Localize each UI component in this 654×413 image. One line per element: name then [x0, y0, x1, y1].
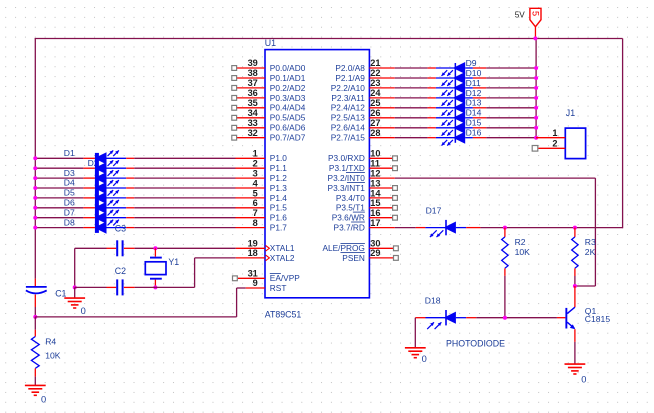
svg-text:C1815: C1815: [585, 314, 611, 324]
svg-text:14: 14: [370, 188, 381, 198]
svg-text:30: 30: [370, 239, 380, 249]
LED D12: [442, 88, 482, 106]
svg-text:P1.0: P1.0: [270, 153, 287, 163]
U1 XTAL2 pin 18 stub: [236, 248, 270, 261]
wire: D17 to R2/R3 tops and right vertical: [480, 227, 622, 229]
wires: U1 P2 pins to LEDs D9-D16 and LEDs to anode bus: [395, 68, 536, 138]
U1 left pin names column: [270, 63, 306, 293]
LED D13: [442, 98, 482, 116]
svg-text:11: 11: [370, 159, 380, 169]
junction: 5V terminal to top rail: [533, 36, 537, 40]
svg-text:28: 28: [370, 128, 380, 138]
svg-text:P2.4/A12: P2.4/A12: [331, 103, 366, 113]
svg-text:D18: D18: [425, 295, 441, 305]
U1 P0 pin numbers 39-32: [248, 58, 259, 138]
wire: XTAL1 row left segment: [75, 248, 107, 287]
svg-text:XTAL1: XTAL1: [270, 243, 295, 253]
svg-text:D4: D4: [64, 178, 75, 188]
svg-text:C2: C2: [115, 266, 126, 276]
svg-text:P0.3/AD3: P0.3/AD3: [270, 93, 306, 103]
svg-text:P1.5: P1.5: [270, 203, 287, 213]
wire: LED anode bus vertical (x=536): [535, 39, 537, 138]
svg-text:D12: D12: [466, 88, 482, 98]
svg-text:P2.5/A13: P2.5/A13: [331, 113, 366, 123]
svg-text:P2.1/A9: P2.1/A9: [335, 73, 365, 83]
svg-text:D11: D11: [466, 78, 481, 88]
svg-text:PSEN: PSEN: [342, 253, 365, 263]
svg-text:P0.4/AD4: P0.4/AD4: [270, 103, 306, 113]
ground at C2/C3: [64, 297, 85, 299]
svg-text:0: 0: [422, 354, 427, 364]
svg-text:18: 18: [248, 248, 258, 258]
svg-text:D5: D5: [64, 188, 75, 198]
svg-text:0: 0: [81, 306, 86, 316]
svg-text:39: 39: [248, 58, 258, 68]
svg-text:D9: D9: [466, 58, 477, 68]
LED D6: [64, 198, 119, 214]
wire: C2 row to U1 XTAL2: [135, 258, 236, 288]
U1 XTAL1 pin 19 stub: [236, 239, 270, 252]
svg-text:15: 15: [370, 198, 380, 208]
U1 P1 pin numbers 1-8: [253, 149, 259, 228]
LED D4: [64, 178, 119, 194]
svg-text:10K: 10K: [515, 247, 531, 257]
svg-text:P2.3/A11: P2.3/A11: [331, 93, 365, 103]
svg-text:U1: U1: [265, 38, 276, 48]
ground below R4: [25, 384, 46, 386]
power terminal 5V: [530, 8, 541, 38]
transistor Q1 C1815: [557, 286, 610, 342]
LED array D1-D8 cathode bar column: [95, 153, 99, 233]
resistor R4 10K: [31, 317, 60, 377]
U1 P3 pin numbers 10-17: [370, 149, 381, 228]
capacitor C3: [107, 224, 135, 257]
wire: Q1 emitter to ground: [574, 342, 576, 364]
svg-text:P0.5/AD5: P0.5/AD5: [270, 113, 306, 123]
wire: anode bus to J1 pin 1: [536, 137, 565, 139]
svg-text:XTAL2: XTAL2: [270, 253, 295, 263]
U1 P1 pin stubs (pins 1-8): [236, 158, 266, 227]
wire: J1 pin 2 stub with unconnected square: [532, 146, 565, 152]
svg-text:P2.7/A15: P2.7/A15: [331, 133, 366, 143]
junction: reset node on left bus: [33, 315, 37, 319]
wire: R2 bottom to base row: [504, 276, 506, 318]
svg-text:16: 16: [370, 208, 380, 218]
wire: reset row to U1 RST: [35, 288, 245, 317]
svg-text:P3.7/RD: P3.7/RD: [334, 223, 365, 233]
svg-text:5: 5: [253, 188, 258, 198]
op-amp U1 AT89C51 chip body: [265, 50, 369, 298]
svg-text:D13: D13: [466, 98, 482, 108]
svg-text:21: 21: [370, 58, 380, 68]
svg-text:P0.0/AD0: P0.0/AD0: [270, 63, 306, 73]
LED D14: [442, 108, 482, 126]
wire: right vertical from top rail down to D17 row: [622, 39, 624, 229]
LED D11: [442, 78, 481, 96]
svg-text:P2.2/A10: P2.2/A10: [331, 83, 366, 93]
LED D10: [442, 68, 482, 86]
U1 P2 pin numbers 21-28: [370, 58, 381, 138]
junction: crystal top on XTAL1 row: [153, 246, 157, 250]
svg-text:P0.6/AD6: P0.6/AD6: [270, 123, 306, 133]
wire: D18 cathode to Q1 base: [476, 317, 557, 319]
svg-text:P1.7: P1.7: [270, 223, 287, 233]
wire: R3 bottom to collector node: [574, 276, 576, 286]
junction: crystal bottom on C2 row: [153, 285, 157, 289]
wire: U1 P3.7/RD to LED D17: [395, 227, 416, 229]
junction: R2 bottom on base wire: [503, 316, 507, 320]
svg-text:P1.3: P1.3: [270, 183, 287, 193]
svg-text:2: 2: [552, 139, 557, 149]
svg-text:ALE/PROG: ALE/PROG: [322, 243, 364, 253]
svg-text:29: 29: [370, 248, 380, 258]
svg-text:8: 8: [253, 218, 258, 228]
svg-text:24: 24: [370, 88, 381, 98]
svg-text:C3: C3: [115, 224, 126, 234]
svg-text:R2: R2: [515, 237, 526, 247]
svg-text:26: 26: [370, 108, 380, 118]
svg-text:3: 3: [253, 169, 258, 179]
svg-text:10K: 10K: [45, 350, 61, 360]
capacitor C1 (polarized): [26, 279, 67, 307]
svg-text:12: 12: [370, 169, 380, 179]
capacitor C2: [75, 266, 135, 295]
U1 P3 pin stubs (pins 10-17): [369, 156, 397, 228]
svg-text:P3.3/INT1: P3.3/INT1: [328, 183, 366, 193]
connector J1: [565, 108, 585, 159]
U1 PSEN pin 29 stub with unconnected square: [369, 248, 398, 260]
resistor R2 10K: [502, 228, 530, 276]
svg-text:19: 19: [248, 239, 258, 249]
svg-text:P1.2: P1.2: [270, 173, 287, 183]
U1 EA/VPP pin 31 stub with unconnected square: [233, 269, 266, 281]
svg-text:P3.6/WR: P3.6/WR: [332, 213, 365, 223]
junction: C2 row meets left ground branch: [73, 285, 77, 289]
svg-text:P1.6: P1.6: [270, 213, 287, 223]
svg-text:J1: J1: [566, 108, 575, 118]
svg-text:D8: D8: [64, 217, 75, 227]
LED D17: [416, 205, 481, 237]
svg-text:R4: R4: [45, 337, 56, 347]
svg-text:D7: D7: [64, 207, 75, 217]
svg-text:17: 17: [370, 218, 380, 228]
svg-text:AT89C51: AT89C51: [265, 309, 302, 319]
wire: +5V top rail: [35, 38, 623, 40]
LED D8: [64, 217, 119, 233]
junction: R3 top on D17 row: [573, 226, 577, 230]
U1 RST pin 9 stub: [246, 278, 265, 288]
ground at D18: [405, 347, 426, 349]
crystal Y1: [145, 248, 179, 286]
U1 P0 pin stubs (pins 39-32, unconnected): [232, 66, 265, 141]
svg-text:1: 1: [552, 128, 557, 138]
svg-text:P3.1/TXD: P3.1/TXD: [329, 163, 365, 173]
svg-text:33: 33: [248, 118, 258, 128]
svg-text:7: 7: [253, 208, 258, 218]
svg-text:2: 2: [253, 159, 258, 169]
svg-text:P3.2/INT0: P3.2/INT0: [328, 173, 366, 183]
svg-text:22: 22: [370, 68, 380, 78]
svg-text:4: 4: [253, 178, 259, 188]
U1 ALE/PROG pin 30 stub with unconnected square: [369, 239, 398, 251]
svg-text:31: 31: [248, 269, 258, 279]
svg-text:0: 0: [581, 374, 586, 384]
svg-text:RST: RST: [270, 283, 287, 293]
svg-text:D14: D14: [466, 108, 482, 118]
svg-text:36: 36: [248, 88, 258, 98]
svg-text:0: 0: [41, 395, 46, 405]
svg-text:R3: R3: [585, 237, 596, 247]
svg-text:D3: D3: [64, 168, 75, 178]
svg-text:C1: C1: [55, 289, 66, 299]
svg-text:5: 5: [530, 11, 540, 16]
svg-text:5V: 5V: [515, 10, 526, 19]
LED D9: [442, 58, 477, 76]
svg-text:D1: D1: [64, 148, 75, 158]
svg-text:D6: D6: [64, 198, 75, 208]
svg-text:10: 10: [370, 149, 380, 159]
svg-text:P1.1: P1.1: [270, 163, 287, 173]
svg-text:38: 38: [248, 68, 258, 78]
svg-text:EA/VPP: EA/VPP: [270, 273, 300, 283]
svg-text:2K: 2K: [585, 247, 596, 257]
svg-text:6: 6: [253, 198, 258, 208]
junction: R3 / INT0 / Q1 collector node: [573, 284, 577, 288]
svg-text:34: 34: [248, 108, 259, 118]
svg-text:27: 27: [370, 118, 380, 128]
svg-text:9: 9: [253, 278, 258, 288]
svg-text:P3.4/T0: P3.4/T0: [336, 193, 365, 203]
wire: left +5V bus vertical: [34, 39, 36, 279]
wire: C3 to crystal node and U1 XTAL1: [135, 247, 236, 249]
ground at Q1 emitter: [565, 363, 586, 365]
svg-text:D10: D10: [466, 68, 482, 78]
svg-text:D16: D16: [466, 128, 482, 138]
svg-text:P2.0/A8: P2.0/A8: [335, 63, 365, 73]
svg-text:P3.0/RXD: P3.0/RXD: [328, 153, 365, 163]
svg-text:D15: D15: [466, 118, 482, 128]
LED D2: [88, 158, 119, 174]
LED array D9-D16 cathode bar line: [455, 63, 457, 143]
svg-text:35: 35: [248, 98, 258, 108]
svg-text:P1.4: P1.4: [270, 193, 287, 203]
svg-text:P0.7/AD7: P0.7/AD7: [270, 133, 306, 143]
LED D18 photodiode: [415, 295, 476, 329]
svg-text:37: 37: [248, 78, 258, 88]
LED D5: [64, 188, 119, 204]
LED D1: [64, 148, 119, 164]
wire: U1 P3.2/INT0 to Q1 collector node: [395, 178, 596, 286]
wire: oscillator ground stub: [74, 287, 76, 298]
wire: C1 to reset node: [34, 307, 36, 317]
svg-text:25: 25: [370, 98, 380, 108]
LED D16: [442, 128, 482, 146]
LED D15: [442, 118, 482, 136]
wire: R4 to ground: [34, 377, 36, 386]
U1 right pin names column: [322, 63, 365, 263]
svg-text:Y1: Y1: [168, 257, 179, 267]
LED D3: [64, 168, 119, 184]
svg-text:D17: D17: [426, 205, 442, 215]
junctions: D1-D8 rows on +5V left bus: [33, 156, 37, 229]
svg-text:23: 23: [370, 78, 380, 88]
junctions: D9-D16 rows on anode bus: [534, 66, 538, 140]
svg-text:P2.6/A14: P2.6/A14: [331, 123, 366, 133]
svg-text:P3.5/T1: P3.5/T1: [336, 203, 365, 213]
svg-text:13: 13: [370, 178, 380, 188]
svg-text:P0.1/AD1: P0.1/AD1: [270, 73, 306, 83]
svg-text:PHOTODIODE: PHOTODIODE: [446, 338, 505, 348]
wires: +5V bus to LEDs D1-D8 and LEDs to U1 P1 pins: [36, 158, 236, 227]
svg-text:P0.2/AD2: P0.2/AD2: [270, 83, 306, 93]
junction: R2 top on D17 row: [503, 226, 507, 230]
svg-text:32: 32: [248, 128, 258, 138]
svg-text:1: 1: [253, 149, 258, 159]
U1 P2 pin stubs (pins 21-28): [369, 68, 394, 138]
resistor R3 2K: [572, 228, 596, 276]
LED D7: [64, 207, 119, 223]
wire: D18 anode to ground: [414, 318, 416, 348]
